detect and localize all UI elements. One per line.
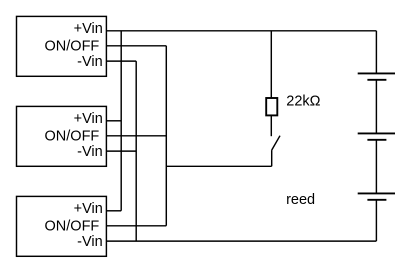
svg-text:-Vin: -Vin xyxy=(77,234,103,250)
svg-text:-Vin: -Vin xyxy=(77,144,103,160)
svg-text:-Vin: -Vin xyxy=(77,54,103,70)
svg-text:ON/OFF: ON/OFF xyxy=(45,129,100,145)
svg-text:ON/OFF: ON/OFF xyxy=(45,219,100,235)
svg-text:ON/OFF: ON/OFF xyxy=(45,39,100,55)
svg-text:reed: reed xyxy=(286,192,315,208)
svg-text:+Vin: +Vin xyxy=(74,201,103,217)
svg-text:+Vin: +Vin xyxy=(74,21,103,37)
svg-text:+Vin: +Vin xyxy=(74,111,103,127)
svg-text:22kΩ: 22kΩ xyxy=(286,94,320,110)
